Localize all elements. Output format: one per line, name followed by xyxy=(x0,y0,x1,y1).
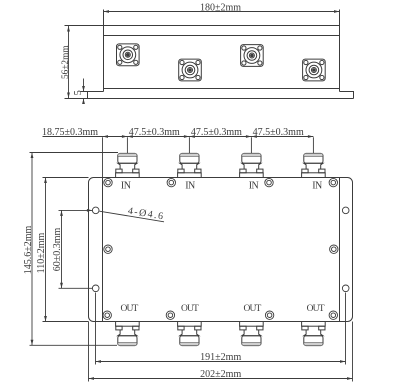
mounting hole bottom-right xyxy=(342,285,349,292)
cover screw bottom row 1 xyxy=(103,311,111,319)
hole callout 4-Ø4.6 leader xyxy=(99,211,164,222)
OUT connector 2 xyxy=(178,322,202,346)
svg-text:OUT: OUT xyxy=(307,304,325,314)
dimension 202±2mm xyxy=(89,322,353,382)
svg-text:5: 5 xyxy=(73,90,84,95)
connector B (top view) xyxy=(179,59,202,81)
svg-text:IN: IN xyxy=(121,181,131,192)
IN connector 3 xyxy=(240,153,264,177)
mounting hole top-right xyxy=(342,207,349,214)
cover screw top row 4 xyxy=(329,178,337,186)
cover screw top row 3 xyxy=(265,178,273,186)
dimension 60±0.3mm xyxy=(59,210,93,288)
dimension 110±2mm xyxy=(43,178,89,322)
cover screw bottom row 4 xyxy=(329,311,337,319)
svg-text:145.6±2mm: 145.6±2mm xyxy=(23,226,34,275)
svg-text:47.5±0.3mm: 47.5±0.3mm xyxy=(191,127,242,138)
top dimension chain lines xyxy=(43,137,314,178)
dimension 180±2mm xyxy=(104,11,340,13)
cover screw mid right xyxy=(330,245,338,253)
cover screw top row 2 xyxy=(167,178,175,186)
enclosure outer plate xyxy=(89,178,353,322)
IN connector 4 xyxy=(302,153,326,177)
svg-text:47.5±0.3mm: 47.5±0.3mm xyxy=(129,127,180,138)
svg-text:202±2mm: 202±2mm xyxy=(200,369,241,380)
svg-text:110±2mm: 110±2mm xyxy=(36,232,47,273)
OUT connector 4 xyxy=(302,322,326,346)
svg-text:18.75±0.3mm: 18.75±0.3mm xyxy=(42,127,98,138)
box body outline xyxy=(104,10,340,92)
connector A (top view) xyxy=(117,44,140,66)
cover screw top row 1 xyxy=(104,178,112,186)
connector D (top view) xyxy=(303,59,326,81)
mounting hole top-left xyxy=(92,207,99,214)
svg-text:OUT: OUT xyxy=(181,304,199,314)
dimension 191±2mm xyxy=(96,293,346,365)
connector C (top view) xyxy=(241,45,264,67)
svg-text:OUT: OUT xyxy=(243,304,261,314)
base flange with tabs xyxy=(88,92,354,99)
svg-text:OUT: OUT xyxy=(120,304,138,314)
svg-text:47.5±0.3mm: 47.5±0.3mm xyxy=(253,127,304,138)
svg-text:60±0.3mm: 60±0.3mm xyxy=(52,228,63,272)
IN connector 1 xyxy=(116,153,140,177)
cover screw bottom row 2 xyxy=(166,311,174,319)
cover screw bottom row 3 xyxy=(265,311,273,319)
mounting hole bottom-left xyxy=(92,285,99,292)
OUT connector 3 xyxy=(240,322,264,346)
cover screw mid left xyxy=(104,245,112,253)
dimension 5 (flange thickness) xyxy=(81,79,88,104)
dimension 145.6±2mm xyxy=(30,153,119,346)
svg-text:180±2mm: 180±2mm xyxy=(200,3,241,14)
svg-text:191±2mm: 191±2mm xyxy=(200,352,241,363)
IN connector 2 xyxy=(178,153,202,177)
dimension 56±2mm xyxy=(65,26,104,99)
svg-text:56±2mm: 56±2mm xyxy=(61,45,71,79)
svg-text:IN: IN xyxy=(249,181,259,192)
svg-text:IN: IN xyxy=(185,181,195,192)
svg-text:IN: IN xyxy=(312,181,322,192)
body edge lines xyxy=(103,178,340,322)
OUT connector 1 xyxy=(116,322,140,346)
